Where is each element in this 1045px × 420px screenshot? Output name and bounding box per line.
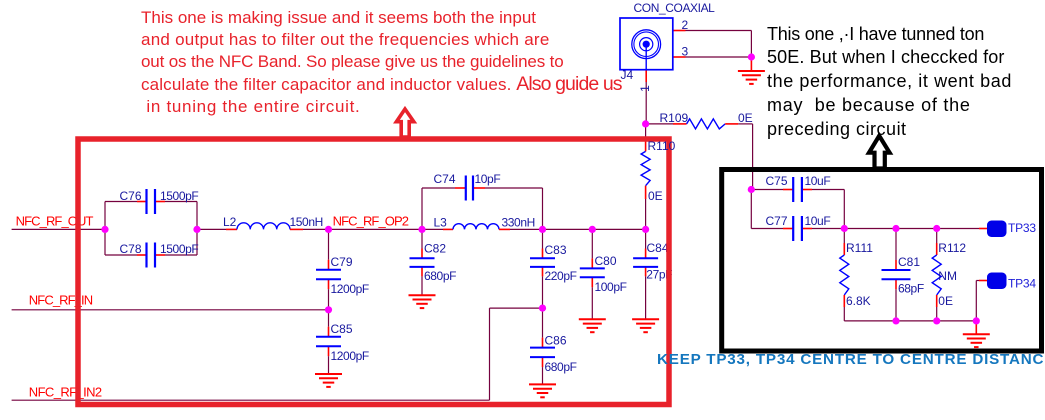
- svg-text:NFC_RF_OP2: NFC_RF_OP2: [333, 213, 409, 228]
- svg-text:10pF: 10pF: [475, 172, 501, 186]
- svg-text:R112: R112: [938, 241, 966, 255]
- svg-text:C81: C81: [898, 255, 920, 269]
- svg-text:2: 2: [682, 18, 689, 32]
- svg-text:1500pF: 1500pF: [160, 242, 198, 256]
- svg-text:C79: C79: [331, 255, 353, 269]
- svg-text:J4: J4: [621, 68, 634, 82]
- svg-text:330nH: 330nH: [502, 216, 535, 230]
- svg-text:L2: L2: [223, 215, 237, 229]
- svg-text:10uF: 10uF: [805, 214, 831, 228]
- svg-text:3: 3: [682, 45, 689, 59]
- svg-text:1200pF: 1200pF: [331, 282, 369, 296]
- svg-text:1: 1: [638, 85, 652, 92]
- svg-text:1500pF: 1500pF: [160, 189, 198, 203]
- svg-text:0E: 0E: [648, 189, 663, 203]
- svg-text:C84: C84: [647, 241, 669, 255]
- svg-text:R109: R109: [660, 111, 689, 125]
- svg-text:1200pF: 1200pF: [331, 349, 369, 363]
- svg-text:0E: 0E: [938, 294, 953, 308]
- svg-text:150nH: 150nH: [290, 215, 323, 229]
- svg-text:C83: C83: [545, 243, 567, 257]
- svg-text:C82: C82: [424, 241, 446, 255]
- svg-text:C74: C74: [434, 172, 456, 186]
- svg-text:C80: C80: [595, 254, 617, 268]
- svg-text:CON_COAXIAL: CON_COAXIAL: [634, 1, 716, 15]
- svg-text:680pF: 680pF: [424, 269, 456, 283]
- svg-text:C75: C75: [766, 174, 788, 188]
- svg-text:0E: 0E: [738, 111, 753, 125]
- svg-text:680pF: 680pF: [545, 360, 577, 374]
- svg-text:R111: R111: [846, 241, 873, 255]
- svg-text:100pF: 100pF: [595, 280, 627, 294]
- svg-text:L3: L3: [434, 216, 448, 230]
- svg-text:R110: R110: [648, 139, 676, 153]
- svg-text:C85: C85: [331, 322, 353, 336]
- svg-text:68pF: 68pF: [898, 282, 924, 296]
- svg-text:NFC_RF_IN2: NFC_RF_IN2: [29, 384, 102, 399]
- svg-text:10uF: 10uF: [805, 174, 831, 188]
- svg-text:C77: C77: [766, 214, 788, 228]
- svg-text:220pF: 220pF: [545, 269, 577, 283]
- svg-text:TP34: TP34: [1008, 277, 1036, 291]
- svg-text:6.8K: 6.8K: [846, 294, 871, 308]
- svg-text:NFC_RF_OUT: NFC_RF_OUT: [16, 213, 94, 228]
- svg-text:C78: C78: [120, 242, 142, 256]
- svg-text:NFC_RF_IN: NFC_RF_IN: [29, 293, 93, 308]
- svg-text:C86: C86: [545, 334, 567, 348]
- svg-text:C76: C76: [120, 189, 142, 203]
- svg-text:NM: NM: [938, 269, 957, 283]
- svg-text:TP33: TP33: [1008, 221, 1036, 235]
